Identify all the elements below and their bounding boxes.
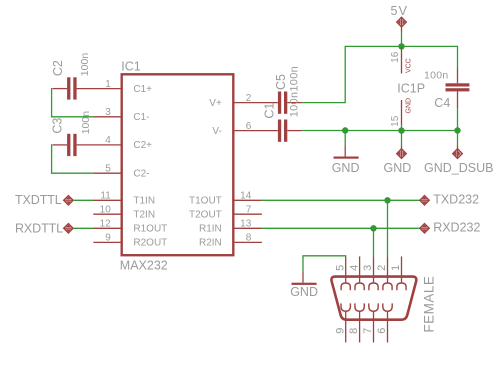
pin 5 C2- stub [94,163,150,179]
wire GND drop at x=344.6 [344,131,346,146]
svg-text:TXDTTL: TXDTTL [15,193,62,207]
DB9 pin 9 [334,303,350,342]
svg-text:8: 8 [348,328,360,334]
ground GND (earth bar) [332,146,360,175]
wire 5V supply drop [401,31,403,46]
node junction GND rail at IC1P column [398,127,404,133]
wire GND rail : C1 right plate across to GND_DSUB column [302,130,458,132]
capacitor C1 [263,103,302,142]
wire C3 left plate to pin 5 (C2-) [52,145,94,173]
svg-text:FEMALE: FEMALE [421,276,436,333]
svg-text:T1OUT: T1OUT [189,196,222,207]
node RXD232 port diamond [420,221,481,235]
DB9 pin 5 [334,256,350,290]
svg-text:VCC: VCC [406,58,413,73]
pin 9 R2OUT stub [93,233,167,249]
svg-text:5V: 5V [391,4,409,18]
svg-text:9: 9 [334,328,346,334]
svg-text:4: 4 [348,265,360,271]
node junction RXD232 [370,225,376,231]
svg-text:7: 7 [246,204,252,215]
wire TXDTTL to pin 11 [73,199,93,201]
IC1P power pin 15 GND [390,98,412,131]
svg-text:GND: GND [290,285,318,299]
svg-text:IC1: IC1 [121,60,141,74]
svg-text:R2OUT: R2OUT [133,238,167,249]
svg-text:C1: C1 [263,103,277,119]
svg-text:T2OUT: T2OUT [189,210,222,221]
ground GND supply diamond [384,146,412,175]
svg-text:C3: C3 [51,118,65,134]
wire DB9 pin5 to GND [303,256,346,272]
svg-text:100n100n: 100n100n [288,66,300,117]
svg-text:14: 14 [240,191,252,202]
node TXD232 port diamond [420,193,479,207]
svg-text:V-: V- [212,126,221,137]
svg-text:10: 10 [100,204,112,215]
wire GND supply drop at x=401.5 [401,131,403,146]
transistor Q0 : IC1P power pin 16 VCC [390,47,412,74]
svg-text:C2+: C2+ [133,140,152,151]
svg-text:2: 2 [376,265,388,271]
pin 13 R1IN stub [199,219,262,235]
wire TXD232 drop to DB9 pin 2 [387,200,389,256]
DB9 pin 8 [348,303,364,342]
svg-text:GND: GND [405,98,412,114]
pin 10 T2IN stub [93,204,155,220]
wire GND_DSUB drop at x=457.3 [457,131,459,147]
svg-text:9: 9 [105,233,111,244]
svg-text:1: 1 [105,79,111,90]
svg-text:C2-: C2- [133,169,149,180]
DB9 pin 3 [362,256,378,290]
svg-text:4: 4 [105,135,111,146]
svg-text:6: 6 [246,121,252,132]
wire RXDTTL to pin 12 [73,227,93,229]
svg-text:6: 6 [376,328,388,334]
DB9 pin 1 [390,256,406,290]
node junction TXD232 [384,197,390,203]
pin 14 T1OUT stub [189,191,262,207]
svg-text:T1IN: T1IN [133,196,155,207]
svg-text:5: 5 [334,265,346,271]
node junction GND rail at C1 column [342,127,348,133]
capacitor C4 [424,69,469,131]
svg-text:GND_DSUB: GND_DSUB [424,161,493,175]
svg-text:100n: 100n [424,69,449,81]
ground GND_DSUB supply diamond [424,146,493,175]
svg-text:100n: 100n [79,53,91,77]
wire RXD232 net [262,227,421,229]
svg-text:2: 2 [246,93,252,104]
wire TXD232 net [262,199,421,201]
svg-text:T2IN: T2IN [133,210,155,221]
capacitor C5 [274,74,302,114]
pin 12 R1OUT stub [94,219,168,235]
DB9 pin 7 [362,303,378,342]
op-amp U1 / IC1 MAX232 box [122,74,234,255]
capacitor C3 [51,111,92,156]
svg-text:3: 3 [105,107,111,118]
svg-text:13: 13 [240,219,252,230]
svg-text:TXD232: TXD232 [433,193,479,207]
svg-text:RXDTTL: RXDTTL [15,221,63,235]
node RXDTTL port diamond [15,221,73,235]
svg-text:12: 12 [100,219,112,230]
svg-text:7: 7 [362,328,374,334]
node TXDTTL port diamond [15,193,73,207]
DB9 pin 6 [376,303,392,342]
wire V+ net : C5 right to 5V rail and C4 top [302,46,458,102]
pin 11 T1IN stub [94,191,156,207]
svg-text:100n: 100n [80,111,92,135]
svg-text:R1IN: R1IN [199,224,222,235]
svg-text:C4: C4 [434,96,450,110]
svg-text:IC1P: IC1P [397,81,425,95]
supply symbol 5V [391,4,409,31]
svg-text:GND: GND [384,161,412,175]
capacitor C2 [51,53,91,100]
DB9 pin 4 [348,256,364,290]
svg-text:RXD232: RXD232 [433,221,480,235]
svg-text:3: 3 [362,265,374,271]
svg-text:11: 11 [100,191,111,202]
svg-text:15: 15 [390,115,401,127]
pin 1 C1+ wire/stub [77,79,153,95]
node junction 5V rail [398,43,404,49]
svg-text:C2: C2 [51,60,65,76]
connector X1 DB9 FEMALE outline [331,277,416,320]
pin 4 C2+ wire/stub [77,135,153,151]
svg-text:5: 5 [105,163,111,174]
svg-text:R1OUT: R1OUT [133,224,167,235]
ground GND (DB9 earth bar) [290,272,318,299]
svg-text:MAX232: MAX232 [120,259,168,273]
svg-text:C1-: C1- [133,112,149,123]
pin 3 C1- stub [94,107,150,123]
svg-text:1: 1 [390,265,402,271]
node junction GND rail at GND_DSUB column [454,127,460,133]
pin 6 V- stub [212,121,278,137]
wire C2 left plate to pin 3 (C1-) [52,89,94,117]
svg-text:R2IN: R2IN [199,238,222,249]
wire RXD232 drop to DB9 pin 3 [373,228,375,256]
svg-text:V+: V+ [209,98,222,109]
svg-text:GND: GND [332,161,360,175]
svg-text:8: 8 [246,233,252,244]
DB9 pin 2 [376,256,392,290]
pin 2 V+ stub [209,93,278,109]
svg-text:16: 16 [390,51,401,63]
pin 8 R2IN stub [199,233,262,249]
svg-text:C1+: C1+ [133,84,152,95]
pin 7 T2OUT stub [189,204,262,220]
svg-text:C5: C5 [274,74,288,90]
